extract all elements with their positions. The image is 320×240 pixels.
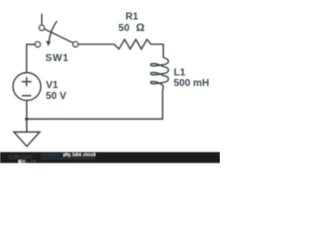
svg-text:V1: V1 (46, 80, 59, 91)
svg-text:50Ω: 50Ω (118, 22, 144, 34)
svg-text:500 mH: 500 mH (174, 78, 210, 89)
svg-text:http://circuitlab.com/c/bqqhan: http://circuitlab.com/c/bqqhanyfyhg (41, 157, 95, 161)
svg-text:50 V: 50 V (46, 91, 67, 102)
svg-text:SW1: SW1 (45, 53, 69, 64)
svg-text:LAB: LAB (27, 159, 37, 164)
svg-text:L1: L1 (174, 68, 186, 79)
svg-text:R1: R1 (126, 12, 139, 23)
